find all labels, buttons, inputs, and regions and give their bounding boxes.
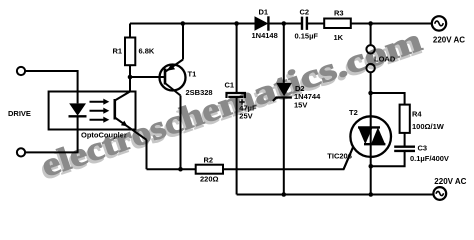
wire R1 bottom lead to opto box [129,65,131,91]
wire T1 base [130,76,165,78]
wire top rail [130,23,432,25]
terminal LOAD bottom [366,64,374,72]
triac bars [358,127,385,144]
wire emitter to R2 [147,168,196,170]
wire to R4 [371,93,405,105]
triac right triangle [371,127,385,144]
LED cathode wire [25,117,77,153]
svg-text:6.8K: 6.8K [139,47,155,56]
resistor R4 [400,105,410,133]
svg-text:0.15µF: 0.15µF [295,32,319,41]
svg-text:TIC206: TIC206 [327,152,352,161]
phototransistor emitter [115,118,147,170]
watermark electroschematics.com [35,23,428,188]
wire drive top terminal to LED [25,71,77,103]
wire R2 to gate [223,148,353,170]
svg-text:R1: R1 [113,47,123,56]
optocoupler box [49,92,136,130]
svg-text:R2: R2 [204,156,214,165]
svg-text:220V AC: 220V AC [434,177,466,186]
junction node load R4 [368,91,373,96]
AC source top [432,16,446,30]
resistor R1 [125,38,135,66]
svg-text:1K: 1K [334,33,344,42]
svg-text:T2: T2 [349,108,358,117]
triac left triangle [358,127,372,144]
junction node T1 base [128,75,133,80]
zener D2 triangle [276,83,292,96]
LED cathode bar [69,115,87,117]
junction node C1 rail [234,21,239,26]
phototransistor collector [115,92,130,101]
svg-text:2SB328: 2SB328 [186,88,213,97]
opto emitter arrow [121,121,128,127]
svg-text:100Ω/1W: 100Ω/1W [412,122,445,131]
diode D1 cathode bar [267,16,269,30]
phototransistor bar [114,99,117,120]
diode D1 triangle [255,16,269,30]
svg-text:C1: C1 [225,81,235,90]
capacitor C1 leads [236,24,238,195]
junction node D2 bottom [282,192,287,197]
junction node T2 bottom [369,192,374,197]
terminal LOAD top [366,45,374,53]
junction node R2 collector [178,167,183,172]
wire load branch [370,24,372,94]
terminal drive bottom [17,148,25,156]
triac T2 gate wire [344,148,353,170]
wire T2 MT1/MT2 vertical [370,93,372,195]
wire bottom rail [237,194,434,196]
svg-text:C2: C2 [300,8,310,17]
svg-text:220Ω: 220Ω [200,175,219,184]
svg-text:1N4148: 1N4148 [252,31,278,40]
svg-text:220V AC: 220V AC [433,36,465,45]
triac T2 circle [350,116,391,157]
AC source bottom [433,187,446,200]
opto arrow heads [103,99,109,105]
svg-text:DRIVE: DRIVE [8,109,31,118]
junction node T1 emitter rail [181,21,186,26]
junction node C3 T2 [369,164,374,169]
LED triangle [69,103,86,115]
opto arrows shafts [90,102,105,120]
resistor R3 [324,19,351,29]
svg-text:R4: R4 [412,109,422,118]
zener D2 lead [283,24,285,195]
svg-text:D1: D1 [259,8,269,17]
svg-text:T1: T1 [188,70,197,79]
svg-text:0.1µF/400V: 0.1µF/400V [410,154,449,163]
transistor T1 [160,65,186,91]
zener D2 bar [273,98,292,102]
capacitor C2 plates [302,17,307,30]
capacitor C1 plates [227,93,245,98]
junction node LOAD rail [368,21,373,26]
wire C3 to T2 [371,152,405,167]
wire R4 to C3 [404,133,406,146]
svg-text:R3: R3 [334,8,344,17]
svg-text:OptoCoupler: OptoCoupler [81,131,127,140]
svg-text:C3: C3 [418,143,428,152]
terminal drive top [17,67,25,75]
junction node D2 rail [282,21,287,26]
svg-text:15V: 15V [294,101,307,110]
svg-text:LOAD: LOAD [374,55,396,64]
C1 plus sign [239,99,244,104]
svg-text:25V: 25V [239,111,252,120]
resistor R2 [196,165,223,174]
T1 emitter arrow [167,64,175,71]
wire R1 top lead [129,24,131,38]
capacitor C3 plates [394,147,415,151]
